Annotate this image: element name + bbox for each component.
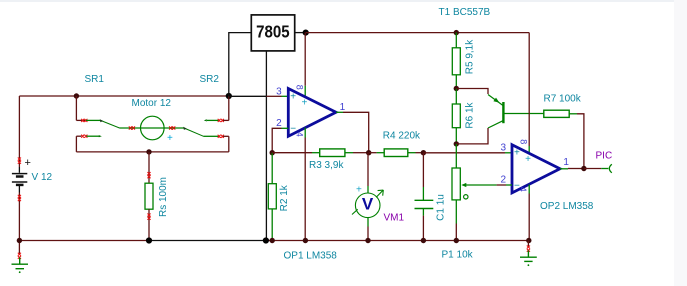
wire 7805 output (black) [295,32,306,34]
svg-text:R4 220k: R4 220k [383,130,421,141]
svg-text:+: + [525,154,531,165]
op-amp OP2 pin 3 [505,152,512,154]
node V12 bottom [17,238,22,243]
svg-text:SR2: SR2 [200,74,220,85]
svg-text:R2 1k: R2 1k [279,184,290,211]
node 7805 gnd at rail [263,237,269,243]
wire OP2 pin4 to rail [528,194,530,241]
svg-text:8: 8 [295,85,305,90]
switch SR1 lever [101,120,120,128]
capacitor C1 1u [415,199,434,201]
svg-text:+: + [356,184,362,195]
node 7805 output [303,29,309,35]
svg-text:Rs 100m: Rs 100m [158,177,169,217]
svg-text:3: 3 [276,86,282,97]
op-amp OP1 pin 8 [304,86,306,97]
bottom rail middle black [149,240,266,242]
op-amp OP2 triangle [512,145,560,193]
wire VM1 top [367,153,369,186]
wire SR2 node to OP1 pin3 (black then maroon) [229,95,267,97]
svg-text:R5 9,1k: R5 9,1k [465,39,476,74]
resistor R6 1k [455,89,457,105]
resistor R5 9,1k [454,30,459,35]
svg-text:OP1 LM358: OP1 LM358 [284,251,338,262]
wire SR2 to 7805 input (black) [229,33,252,96]
wire battery to bottom rail [18,193,20,241]
potentiometer P1 10k [455,144,457,168]
wire R2 node to R3 [272,152,312,154]
wire OP1 output down to node [343,112,369,152]
svg-text:R3 3,9k: R3 3,9k [309,160,344,171]
resistor R4 220k [369,152,377,154]
wire 7805 ground pin (black) [265,51,267,241]
node R2 top [270,150,275,155]
wire OP1 pin4 to rail [304,138,306,241]
svg-text:8: 8 [518,139,528,144]
wire top-left horizontal V12+ to SR2 [19,95,228,97]
switch SR1 top contact [76,119,86,121]
svg-text:1: 1 [563,157,569,168]
node SR1 [74,93,79,98]
wire motor left [120,127,141,129]
svg-text:V 12: V 12 [32,172,53,183]
battery V1 pin top [18,167,20,173]
node R4/C1 [421,150,426,155]
potentiometer wiper circle [464,195,468,199]
resistor R3 3,9k [312,152,320,154]
op-amp OP2 pin 2 [506,184,512,186]
op-amp OP1 pin 2 [282,127,289,129]
terminal PIC [609,164,612,173]
switch SR2 lever [184,128,204,136]
svg-text:+: + [25,157,31,169]
op-amp OP1 pin 1 output [336,111,343,113]
wire +5V top rail [306,32,530,34]
battery pin bottom [18,186,20,193]
transistor T1 emitter arm [488,95,503,106]
svg-text:+: + [514,148,520,159]
svg-text:4: 4 [294,132,304,137]
svg-text:OP2 LM358: OP2 LM358 [540,201,594,212]
switch SR2 top contact open [207,119,219,121]
svg-text:3: 3 [501,142,507,153]
svg-text:Motor 12: Motor 12 [132,98,172,109]
motor M circle [141,116,165,140]
resistor Rs 100m leads [148,152,150,183]
svg-text:2: 2 [501,175,507,186]
resistor Rs 100m [145,183,153,209]
wire base to R7 [505,113,544,115]
wire collector to node B [456,128,488,144]
pin marks battery [18,158,21,164]
wire SR2 top contact up to node [228,96,230,120]
wire motor right [164,127,184,129]
ground symbol left [12,258,29,269]
svg-text:R7 100k: R7 100k [544,93,582,104]
bottom rail right maroon [266,240,529,242]
svg-text:2: 2 [276,118,282,129]
motor bottom rail [76,151,228,153]
op-amp OP1 pin 3 [282,95,289,97]
switch SR1 frame to bottom rail [75,136,77,152]
transistor T1 bar [502,102,504,123]
node Rs bottom [146,237,152,243]
potentiometer wiper arrow [465,184,497,186]
svg-text:R6 1k: R6 1k [464,101,475,128]
node R3/R4/VM1 [366,150,371,155]
wire +5V rail to OP2 pin8 [528,33,530,146]
node SR2 [226,93,232,99]
op-amp OP1 pin 4 [304,128,306,138]
node A R5/R6/emitter [454,86,459,91]
svg-text:+: + [302,98,308,109]
wire to PIC terminal [584,168,601,170]
svg-text:PIC: PIC [596,150,613,161]
svg-text:VM1: VM1 [384,213,405,224]
op-amp OP2 pin 8 [528,146,530,154]
svg-text:+: + [290,91,296,102]
capacitor C1 leads [422,153,424,187]
wire VM1 bottom [367,218,369,227]
bottom rail left maroon [19,240,149,242]
voltmeter VM1 [355,193,380,218]
svg-text:+: + [167,133,173,144]
resistor R7 100k [544,110,569,117]
svg-text:V: V [362,195,374,214]
regulator 7805 box [251,15,294,51]
node B R6/P1/collector [454,141,459,146]
wire left vertical battery top [18,96,20,167]
wire OP1 pin8 supply drop [304,33,306,86]
resistor R2 1k [271,153,273,184]
svg-text:4: 4 [518,187,528,192]
op-amp OP2 pin 1 output [560,168,568,170]
transistor T1 collector arm [488,121,503,128]
node motor rail to Rs [146,149,151,154]
op-amp OP1 triangle [288,89,336,137]
switch SR2 lower contact [204,135,220,137]
node OP2 out / R7 [581,166,586,171]
battery V 12 [12,174,27,185]
switch SR1 lower contact [76,135,81,137]
svg-text:C1 1u: C1 1u [436,194,447,221]
wire emitter from node A [456,89,488,95]
right ground stem [527,241,529,248]
svg-text:T1 BC557B: T1 BC557B [439,7,491,18]
svg-text:SR1: SR1 [85,74,105,85]
wire OP1 pin2 to R2 node [272,128,281,152]
svg-text:1: 1 [340,102,346,113]
svg-text:P1 10k: P1 10k [442,250,474,261]
wire SR1 down [75,96,77,120]
left ground stem [18,241,20,255]
ground symbol right [520,251,537,262]
svg-text:7805: 7805 [256,21,290,41]
op-amp OP2 pin 4 [528,184,530,193]
wire main row to OP2 pin3 [423,152,505,154]
